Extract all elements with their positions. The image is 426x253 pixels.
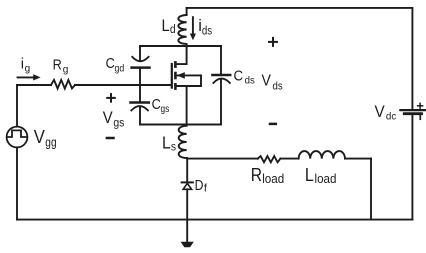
battery Vdc short plate [404,112,421,115]
MOSFET box top wire [140,45,221,47]
wire: left vertical from Vgg bottom to bottom bus [16,147,18,219]
battery Vdc minus mark [419,115,421,119]
plus sign Vgs [107,94,115,102]
svg-text:s: s [171,139,176,153]
pulse waveform inside Vgg [8,130,27,137]
MOSFET box bottom wire [140,124,221,126]
resistor R2 Rload [258,156,281,162]
wire: right vertical from top to Vdc [411,8,413,109]
wire: diode to ground through bus [186,189,188,242]
transistor Q1 source stub [176,85,201,87]
voltage source Vgg (pulse source circle) [7,127,28,148]
svg-text:V: V [34,126,46,147]
plus sign Vds [269,38,277,46]
wire: box right vertical below Cds [220,79,222,124]
wire: gate horizontal from left corner to Rg [17,84,51,86]
svg-text:f: f [204,182,208,194]
transistor Q1 drain stub [177,46,187,64]
svg-text:C: C [152,97,161,113]
wire: Rload to Lload [280,158,298,160]
svg-text:gg: gg [45,135,56,149]
transistor Q1 channel dash bottom [174,84,177,88]
svg-text:L: L [305,165,314,185]
transistor Q1 body arrow head [177,72,185,79]
wire: box left vertical between Cgd and Cgs [139,69,141,102]
svg-text:i: i [21,56,24,72]
inductor L3 Lload coil [299,151,345,159]
resistor R1 Rg [51,80,75,89]
current arrow ids [190,17,196,40]
svg-text:dc: dc [386,110,396,122]
inductor L1 Ld coil [178,15,186,44]
wire: left vertical from gate wire to Vgg top [16,85,18,127]
svg-text:g: g [63,64,69,75]
inductor L2 Ls coil [179,126,187,158]
transistor Q1 body loop vertical [200,75,202,86]
svg-text:d: d [170,24,176,36]
capacitor C2 Cgs curved plate [131,106,148,110]
wire: from Rg to MOSFET gate [75,84,171,86]
transistor Q1 body arrow line [177,74,201,76]
minus sign Vds [270,123,276,126]
battery Vdc long plate [400,109,425,111]
svg-text:R: R [53,57,62,73]
svg-text:load: load [315,172,337,186]
svg-text:ds: ds [245,75,255,87]
svg-text:gs: gs [113,118,124,130]
wire: load branch from Ls junction to Rload [187,158,258,160]
svg-text:L: L [162,132,171,152]
current arrow ig [18,74,41,80]
svg-text:load: load [262,172,284,186]
transistor Q1 gate bar [171,64,173,88]
wire: Ls bottom junction down to diode [186,158,188,181]
svg-text:V: V [375,102,386,121]
svg-text:C: C [234,68,244,85]
wire: right vertical from Vdc to bottom bus [411,114,413,220]
diode D1 Df cathode bar [182,181,193,183]
diode D1 Df triangle [183,183,192,189]
svg-text:gs: gs [161,104,170,115]
wire: source vertical inside box [186,86,188,125]
wire: box left vertical top segment (above Cgd) [139,46,141,61]
capacitor C2 Cgs straight plate [131,101,149,104]
wire: load branch vertical down to bus [370,159,372,220]
minus sign Vgs [107,137,114,140]
svg-text:C: C [106,56,115,72]
svg-text:L: L [162,17,170,35]
svg-text:V: V [262,73,272,90]
svg-text:V: V [103,109,113,127]
wire: box right vertical above Cds [220,46,222,74]
wire: box left vertical below Cgs [139,107,141,125]
capacitor C1 Cgd straight plate [132,66,150,69]
battery Vdc plus mark [418,103,423,108]
svg-text:gd: gd [115,63,125,74]
svg-text:D: D [195,178,204,194]
capacitor C3 Cds curved plate [213,79,229,83]
svg-text:ds: ds [202,26,212,38]
svg-text:R: R [251,165,262,185]
transistor Q1 channel dash top [174,62,177,66]
ground symbol [181,242,194,248]
wire: Lload to right corner [345,158,371,160]
wire: top stub above Ld [186,8,188,15]
wire: top horizontal to right edge [187,7,413,9]
capacitor C3 Cds straight plate [212,74,230,77]
transistor Q1 channel dash middle [174,73,177,78]
svg-text:ds: ds [273,81,284,93]
svg-text:g: g [25,64,31,75]
wire: bottom bus [17,219,412,221]
capacitor C1 Cgd curved plate [132,57,148,61]
